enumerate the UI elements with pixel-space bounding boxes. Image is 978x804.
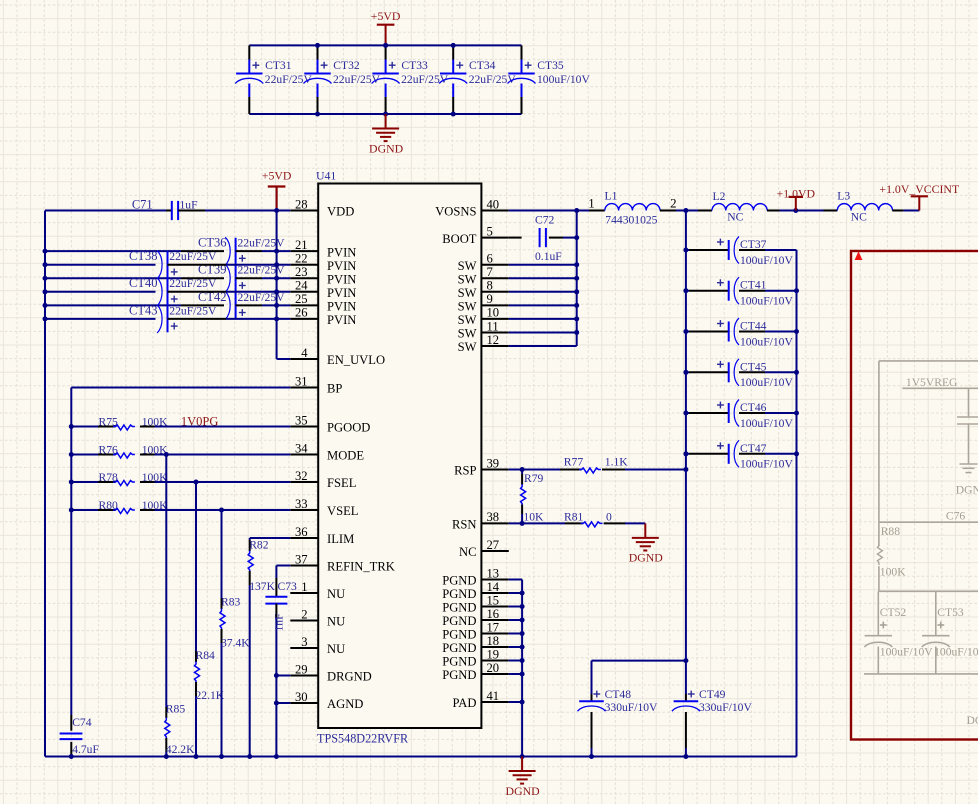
svg-text:100uF/10V: 100uF/10V	[740, 295, 793, 308]
svg-text:12: 12	[487, 333, 500, 347]
svg-text:+5VD: +5VD	[371, 9, 401, 23]
svg-text:1uF: 1uF	[180, 199, 199, 212]
svg-text:CT48: CT48	[605, 688, 632, 701]
svg-text:36: 36	[295, 525, 308, 539]
svg-text:REFIN_TRK: REFIN_TRK	[327, 560, 395, 574]
svg-text:100uF/10V: 100uF/10V	[740, 417, 793, 430]
svg-text:100K: 100K	[142, 471, 168, 484]
svg-text:100K: 100K	[880, 565, 906, 578]
svg-text:22.1K: 22.1K	[196, 689, 225, 702]
svg-text:39: 39	[487, 456, 500, 470]
svg-text:SW: SW	[458, 300, 477, 314]
svg-text:R75: R75	[99, 416, 119, 429]
svg-text:22uF/25V: 22uF/25V	[169, 250, 217, 263]
svg-text:100uF/10V: 100uF/10V	[740, 254, 793, 267]
svg-text:PVIN: PVIN	[327, 313, 356, 327]
svg-text:1V0PG: 1V0PG	[181, 415, 219, 429]
svg-text:100K: 100K	[142, 499, 168, 512]
svg-text:CT45: CT45	[740, 360, 767, 373]
svg-text:PGND: PGND	[442, 641, 476, 655]
svg-text:CT31: CT31	[265, 59, 292, 72]
svg-text:R76: R76	[99, 444, 119, 457]
svg-text:SW: SW	[458, 340, 477, 354]
svg-text:CT47: CT47	[740, 442, 767, 455]
svg-text:PGND: PGND	[442, 587, 476, 601]
svg-text:100uF/10V: 100uF/10V	[740, 335, 793, 348]
svg-text:PVIN: PVIN	[327, 259, 356, 273]
svg-text:8: 8	[487, 279, 493, 293]
svg-text:ILIM: ILIM	[327, 532, 354, 546]
svg-text:31: 31	[295, 374, 308, 388]
svg-text:DGND: DGND	[369, 141, 404, 155]
svg-text:34: 34	[295, 441, 308, 455]
svg-text:33: 33	[295, 497, 308, 511]
svg-text:RSP: RSP	[454, 464, 476, 478]
svg-text:PVIN: PVIN	[327, 286, 356, 300]
svg-text:4.7uF: 4.7uF	[72, 743, 99, 756]
svg-text:29: 29	[295, 662, 308, 676]
svg-text:PGND: PGND	[442, 628, 476, 642]
svg-text:42.2K: 42.2K	[166, 743, 195, 756]
svg-text:22: 22	[295, 252, 308, 266]
svg-text:PVIN: PVIN	[327, 272, 356, 286]
svg-text:R77: R77	[564, 456, 584, 469]
svg-text:C73: C73	[278, 580, 298, 593]
svg-text:37.4K: 37.4K	[221, 637, 250, 650]
svg-text:L1: L1	[605, 189, 618, 202]
svg-text:22uF/25V: 22uF/25V	[265, 73, 313, 86]
svg-text:CT37: CT37	[740, 238, 767, 251]
svg-text:U41: U41	[316, 169, 336, 183]
svg-text:100uF/10V: 100uF/10V	[740, 458, 793, 471]
svg-text:14: 14	[487, 580, 500, 594]
svg-text:28: 28	[295, 197, 308, 211]
svg-text:38: 38	[487, 510, 500, 524]
svg-text:PVIN: PVIN	[327, 245, 356, 259]
svg-text:19: 19	[487, 647, 500, 661]
svg-text:32: 32	[295, 469, 308, 483]
svg-text:CT53: CT53	[937, 606, 964, 619]
svg-text:CT44: CT44	[740, 320, 767, 333]
svg-text:CT33: CT33	[401, 59, 428, 72]
svg-text:SW: SW	[458, 313, 477, 327]
svg-text:24: 24	[295, 279, 308, 293]
svg-text:AGND: AGND	[327, 697, 363, 711]
svg-text:16: 16	[487, 607, 500, 621]
svg-text:C71: C71	[132, 198, 153, 212]
svg-text:1.1K: 1.1K	[605, 456, 628, 469]
svg-text:C72: C72	[535, 214, 555, 227]
svg-text:CT36: CT36	[198, 236, 226, 250]
svg-text:CT34: CT34	[469, 59, 496, 72]
svg-text:4: 4	[301, 346, 308, 360]
svg-text:R81: R81	[564, 510, 584, 523]
svg-text:1: 1	[301, 580, 307, 594]
svg-text:CT32: CT32	[333, 59, 360, 72]
svg-text:FSEL: FSEL	[327, 476, 356, 490]
svg-text:3: 3	[301, 635, 307, 649]
svg-text:11: 11	[487, 319, 499, 333]
svg-text:37: 37	[295, 552, 308, 566]
svg-text:R79: R79	[524, 472, 544, 485]
svg-text:L3: L3	[837, 189, 850, 202]
svg-text:SW: SW	[458, 259, 477, 273]
svg-text:10: 10	[487, 306, 500, 320]
svg-text:R88: R88	[881, 525, 901, 538]
svg-text:+1.0V_VCCINT: +1.0V_VCCINT	[879, 182, 960, 196]
svg-text:15: 15	[487, 593, 500, 607]
svg-text:CT43: CT43	[129, 303, 157, 317]
svg-text:10K: 10K	[523, 510, 544, 523]
svg-text:6: 6	[487, 252, 493, 266]
svg-text:EN_UVLO: EN_UVLO	[327, 353, 385, 367]
svg-text:R80: R80	[99, 499, 119, 512]
svg-text:SW: SW	[458, 327, 477, 341]
svg-text:22uF/25V: 22uF/25V	[333, 73, 381, 86]
svg-text:137K: 137K	[249, 580, 275, 593]
svg-text:CT46: CT46	[740, 401, 767, 414]
svg-text:27: 27	[487, 538, 500, 552]
svg-text:+1.0VD: +1.0VD	[777, 187, 816, 201]
svg-text:PGND: PGND	[442, 614, 476, 628]
svg-text:13: 13	[487, 566, 500, 580]
svg-text:NU: NU	[327, 587, 345, 601]
svg-text:PVIN: PVIN	[327, 300, 356, 314]
svg-text:35: 35	[295, 413, 308, 427]
svg-text:C74: C74	[72, 716, 92, 729]
svg-text:330uF/10V: 330uF/10V	[699, 701, 752, 714]
svg-text:BP: BP	[327, 382, 342, 396]
svg-text:PAD: PAD	[452, 696, 476, 710]
svg-text:CT40: CT40	[129, 276, 157, 290]
svg-text:CT52: CT52	[880, 606, 907, 619]
svg-text:MODE: MODE	[327, 449, 364, 463]
svg-text:22uF/25V: 22uF/25V	[169, 277, 217, 290]
svg-text:25: 25	[295, 292, 308, 306]
svg-text:40: 40	[487, 197, 500, 211]
svg-text:VOSNS: VOSNS	[435, 205, 476, 219]
svg-text:CT35: CT35	[537, 59, 564, 72]
svg-text:5: 5	[487, 224, 493, 238]
svg-text:SW: SW	[458, 286, 477, 300]
svg-text:R78: R78	[99, 471, 119, 484]
svg-text:22uF/25V: 22uF/25V	[401, 73, 449, 86]
svg-text:DGND: DGND	[629, 551, 664, 565]
svg-text:PGOOD: PGOOD	[327, 421, 370, 435]
svg-text:330uF/10V: 330uF/10V	[605, 701, 658, 714]
svg-text:VSEL: VSEL	[327, 504, 358, 518]
svg-text:DGND: DGND	[967, 714, 978, 727]
svg-text:RSN: RSN	[452, 518, 477, 532]
svg-text:C76: C76	[946, 510, 966, 523]
svg-text:30: 30	[295, 690, 308, 704]
svg-text:VDD: VDD	[327, 205, 354, 219]
svg-text:1V5VREG: 1V5VREG	[906, 376, 958, 389]
svg-text:PGND: PGND	[442, 574, 476, 588]
svg-text:744301025: 744301025	[605, 214, 657, 227]
svg-text:NC: NC	[727, 211, 743, 224]
svg-text:100uF/10V: 100uF/10V	[740, 376, 793, 389]
svg-text:21: 21	[295, 238, 308, 252]
svg-text:18: 18	[487, 634, 500, 648]
svg-text:NU: NU	[327, 642, 345, 656]
svg-text:2: 2	[301, 607, 307, 621]
svg-text:L2: L2	[713, 190, 726, 203]
svg-text:PGND: PGND	[442, 655, 476, 669]
svg-text:CT49: CT49	[699, 688, 726, 701]
svg-text:100K: 100K	[142, 416, 168, 429]
svg-text:17: 17	[487, 620, 500, 634]
svg-text:PGND: PGND	[442, 668, 476, 682]
svg-text:CT38: CT38	[129, 249, 157, 263]
svg-text:0.1uF: 0.1uF	[535, 250, 562, 263]
svg-text:NC: NC	[851, 211, 867, 224]
svg-text:PGND: PGND	[442, 601, 476, 615]
svg-text:22uF/25V: 22uF/25V	[469, 73, 517, 86]
svg-text:41: 41	[487, 689, 500, 703]
svg-text:R85: R85	[166, 703, 186, 716]
svg-text:R82: R82	[249, 539, 269, 552]
svg-text:BOOT: BOOT	[442, 232, 477, 246]
svg-text:100uF/10V: 100uF/10V	[880, 645, 933, 658]
svg-text:9: 9	[487, 292, 493, 306]
svg-text:NC: NC	[459, 545, 477, 559]
svg-text:23: 23	[295, 265, 308, 279]
svg-text:+5VD: +5VD	[262, 168, 292, 182]
svg-text:R84: R84	[196, 649, 216, 662]
svg-text:100uF/10V: 100uF/10V	[934, 645, 978, 658]
svg-text:DRGND: DRGND	[327, 670, 372, 684]
svg-text:100uF/10V: 100uF/10V	[537, 73, 590, 86]
svg-text:26: 26	[295, 306, 308, 320]
svg-text:1: 1	[588, 197, 594, 211]
svg-text:1nF: 1nF	[273, 613, 286, 632]
svg-text:2: 2	[670, 197, 676, 211]
svg-text:DGND: DGND	[956, 483, 978, 496]
svg-text:SW: SW	[458, 272, 477, 286]
svg-text:0: 0	[606, 510, 612, 523]
svg-text:22uF/25V: 22uF/25V	[238, 237, 286, 250]
svg-text:CT41: CT41	[740, 279, 767, 292]
svg-text:20: 20	[487, 661, 500, 675]
svg-text:NU: NU	[327, 615, 345, 629]
svg-text:7: 7	[487, 265, 493, 279]
svg-text:R83: R83	[221, 596, 241, 609]
svg-text:DGND: DGND	[506, 784, 541, 798]
svg-text:22uF/25V: 22uF/25V	[169, 304, 217, 317]
svg-text:TPS548D22RVFR: TPS548D22RVFR	[317, 732, 409, 746]
